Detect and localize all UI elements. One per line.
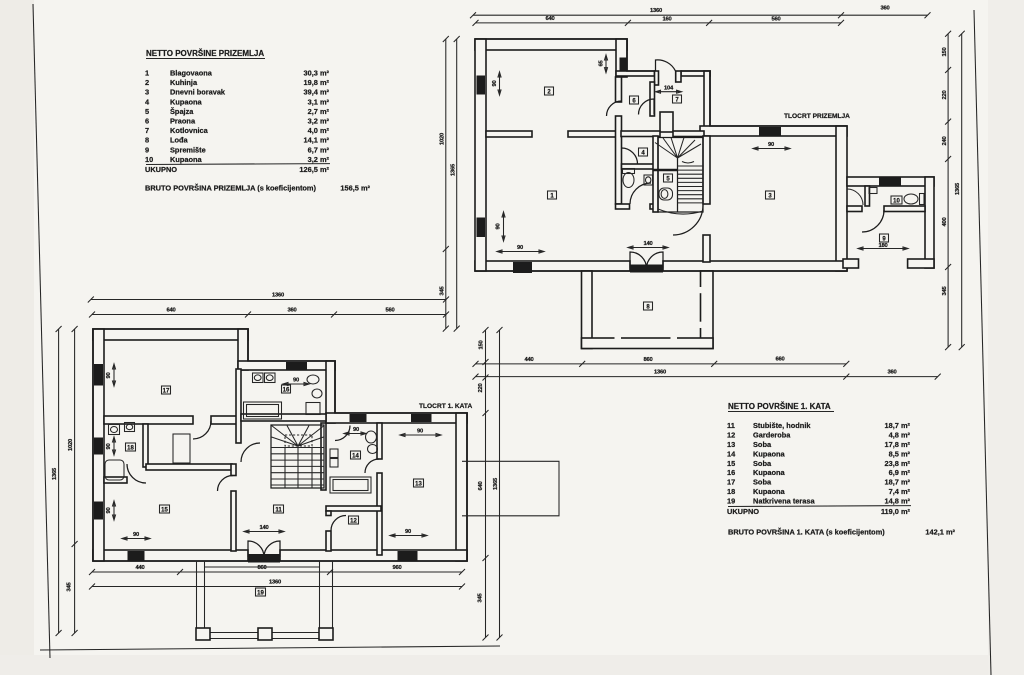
kat bath16 sink 1 <box>253 373 264 383</box>
svg-text:440: 440 <box>524 357 533 363</box>
svg-text:BRUTO POVRŠINA PRIZEMLJA (s ko: BRUTO POVRŠINA PRIZEMLJA (s koeficijento… <box>145 184 317 193</box>
prizemlje room label 2 <box>545 87 554 96</box>
svg-text:1360: 1360 <box>272 293 284 299</box>
svg-text:19,8 m²: 19,8 m² <box>304 78 330 87</box>
svg-text:90: 90 <box>405 529 411 535</box>
prizemlje stairs flight divider <box>677 158 679 212</box>
prizemlje annex toilet <box>904 194 918 204</box>
prizemlje interior wall: dining-hall lower <box>616 116 622 204</box>
svg-text:1365: 1365 <box>451 163 457 176</box>
prizemlje annex wall: bottom right stub <box>908 259 934 268</box>
dim line right of kat total 1365 <box>499 330 501 638</box>
prizemlje loggia wall: right <box>701 271 714 349</box>
prizemlje room label 8 <box>644 302 653 311</box>
kat bath16 sink 2 <box>265 373 276 383</box>
svg-text:UKUPNO: UKUPNO <box>145 165 177 174</box>
legend total rule <box>146 163 330 166</box>
prizemlje dim 180 annex door <box>858 247 908 250</box>
svg-text:13: 13 <box>727 440 735 449</box>
svg-text:5: 5 <box>145 107 149 116</box>
prizemlje exterior wall: top of kitchen block <box>475 39 627 50</box>
kat stairs mid rail <box>285 446 312 488</box>
prizemlje stairs outline <box>658 138 703 213</box>
kat exterior wall: bottom right piece <box>280 550 467 561</box>
kat bath18 sink 2 <box>125 423 135 432</box>
prizemlje dim 140 french door <box>628 246 668 249</box>
svg-text:Natkrivena terasa: Natkrivena terasa <box>753 496 816 505</box>
svg-text:90: 90 <box>293 378 299 384</box>
prizemlje window: kitchen east <box>620 58 627 72</box>
prizemlje french door arcs <box>630 252 663 269</box>
svg-text:3: 3 <box>145 88 149 97</box>
kat door arc: hall to room12 <box>331 516 346 531</box>
svg-text:Kupaona: Kupaona <box>753 487 786 496</box>
svg-text:90: 90 <box>417 429 423 435</box>
prizemlje loggia parapet notch 1 <box>615 337 622 342</box>
kat french door sill <box>248 554 280 563</box>
svg-text:119,0 m²: 119,0 m² <box>881 507 911 516</box>
svg-text:19: 19 <box>727 496 735 505</box>
svg-text:18,7 m²: 18,7 m² <box>885 421 911 430</box>
svg-text:39,4 m²: 39,4 m² <box>304 88 330 97</box>
prizemlje window: room3 north <box>759 127 781 136</box>
kat room label 18 <box>126 443 136 452</box>
kat dim 90 bath18 window <box>113 437 116 455</box>
svg-text:14: 14 <box>352 454 359 460</box>
svg-text:Kuhinja: Kuhinja <box>170 78 198 87</box>
prizemlje stairs walk line <box>682 162 694 164</box>
legend 2 heading underline <box>728 411 834 413</box>
svg-text:18,7 m²: 18,7 m² <box>885 478 911 487</box>
dim line left of prizemlje total 1365 <box>456 39 458 329</box>
svg-text:860: 860 <box>257 565 266 571</box>
svg-text:660: 660 <box>775 356 784 362</box>
svg-text:Praona: Praona <box>170 117 196 126</box>
svg-text:4,0 m²: 4,0 m² <box>308 126 330 135</box>
svg-text:160: 160 <box>662 17 671 23</box>
svg-text:13: 13 <box>415 482 422 488</box>
svg-text:UKUPNO: UKUPNO <box>727 507 759 516</box>
kat room label 17 <box>162 386 171 395</box>
prizemlje annex wall: bath divider horizontal left <box>847 206 862 212</box>
svg-text:Spremište: Spremište <box>170 145 206 154</box>
svg-text:65: 65 <box>599 60 605 67</box>
svg-text:Dnevni boravak: Dnevni boravak <box>170 88 226 97</box>
svg-text:1365: 1365 <box>955 182 961 195</box>
svg-text:3,2 m²: 3,2 m² <box>308 117 330 126</box>
prizemlje interior wall: hall bottom piece under 7 <box>673 131 704 137</box>
prizemlje window: annex north <box>879 178 901 186</box>
svg-text:Soba: Soba <box>753 459 772 468</box>
kat terrace19 post right <box>319 628 333 640</box>
prizemlje loggia wall: bottom <box>582 338 714 349</box>
kat bath14 toilet <box>366 431 377 443</box>
kat interior wall: room12 left lower <box>326 531 331 551</box>
prizemlje interior wall: kitchen-dining left piece <box>486 131 532 137</box>
kat interior wall: hall-room15 divider lower <box>231 491 236 551</box>
svg-text:BRUTO POVRŠINA 1. KATA (s koef: BRUTO POVRŠINA 1. KATA (s koeficijentom) <box>728 528 885 537</box>
kat interior wall: bath18 right <box>143 424 148 467</box>
prizemlje wc sink <box>644 175 653 185</box>
kat bath14 sink 2 <box>330 459 338 468</box>
kat interior wall: bath16 left <box>236 369 241 443</box>
prizemlje annex wall: bath divider horizontal right <box>884 206 925 212</box>
prizemlje dim 90 left window upper <box>498 72 501 95</box>
kat interior wall: room17 bottom left <box>104 416 193 424</box>
kat interior wall: room13-bath14 divider upper <box>377 423 382 459</box>
kat bath16 cabinet <box>306 403 320 415</box>
kat exterior wall: step right of 17 <box>238 329 248 370</box>
svg-text:8: 8 <box>145 136 149 145</box>
kat bath16 toilet <box>307 375 319 384</box>
prizemlje exterior wall: bottom right piece <box>663 261 847 271</box>
svg-text:640: 640 <box>166 308 175 314</box>
kat outer contour overdraw <box>93 329 467 561</box>
prizemlje stairs treads <box>678 166 704 203</box>
svg-text:90: 90 <box>496 223 502 229</box>
prizemlje annex wall: right <box>925 177 934 268</box>
kat exterior wall: room13 top <box>326 413 467 423</box>
svg-text:23,8 m²: 23,8 m² <box>885 459 911 468</box>
prizemlje wc toilet <box>623 173 634 188</box>
prizemlje understair toilet <box>659 188 673 200</box>
kat interior wall: room15 top <box>146 464 232 470</box>
kat dim 90 room15 window <box>113 501 116 520</box>
svg-text:7: 7 <box>145 126 149 135</box>
svg-text:11: 11 <box>275 508 282 514</box>
svg-text:17,8 m²: 17,8 m² <box>885 440 911 449</box>
svg-text:19: 19 <box>257 591 264 597</box>
svg-text:90: 90 <box>353 427 359 433</box>
kat bath16 tub <box>244 402 282 419</box>
prizemlje room label 6 <box>630 96 639 105</box>
svg-text:360: 360 <box>887 370 896 376</box>
prizemlje interior wall: wc top <box>622 164 654 169</box>
kat stairs outline <box>271 425 324 488</box>
kat terrace19 post left <box>196 628 210 640</box>
dim line top E1 total 1360/360 <box>473 14 928 16</box>
prizemlje room label 5 <box>664 174 673 183</box>
prizemlje room label 7 <box>673 95 682 104</box>
kat bath18 shower <box>105 460 124 480</box>
kat door arc: room13 to bath14 <box>365 459 379 473</box>
prizemlje door arc: room 6 <box>639 99 655 115</box>
prizemlje entry door arc <box>656 60 676 71</box>
svg-text:Kupaona: Kupaona <box>170 97 203 106</box>
prizemlje door arc: hall to room 3 <box>673 205 703 235</box>
kat bath14 tub <box>330 477 371 493</box>
prizemlje french door sill <box>630 265 663 273</box>
dim line left of kat 1020/345 <box>74 329 76 633</box>
prizemlje exterior wall: bottom left piece <box>475 261 630 271</box>
kat stairs winder fan <box>272 426 324 447</box>
kat dim 90 room15 south window <box>122 537 150 540</box>
svg-text:17: 17 <box>727 478 735 487</box>
svg-text:Kupaona: Kupaona <box>170 155 203 164</box>
svg-text:1360: 1360 <box>654 370 666 376</box>
prizemlje annex corner sink <box>847 189 863 205</box>
svg-text:560: 560 <box>771 17 780 23</box>
kat exterior wall: top of room 17 block <box>93 329 248 340</box>
svg-text:140: 140 <box>643 241 652 247</box>
prizemlje dim 65 kitchen window <box>605 55 608 73</box>
kat window: room15 south <box>128 551 145 562</box>
svg-text:90: 90 <box>517 245 523 251</box>
svg-text:1365: 1365 <box>493 477 499 490</box>
prizemlje interior wall: room 6 bottom <box>621 131 660 137</box>
prizemlje exterior wall: main right <box>836 126 847 271</box>
kat interior wall: stairs right <box>321 423 326 490</box>
dim line left of prizemlje 1020/345 <box>445 39 447 329</box>
svg-text:30,3 m²: 30,3 m² <box>304 69 330 78</box>
prizemlje interior wall: chimney bump <box>660 112 673 132</box>
prizemlje room label 1 <box>548 191 557 200</box>
kat exterior wall: room16 top <box>238 361 335 370</box>
prizemlje annex wall: top <box>847 177 934 186</box>
svg-text:14,8 m²: 14,8 m² <box>885 496 911 505</box>
prizemlje loggia parapet notch 4 <box>699 322 704 328</box>
svg-text:1360: 1360 <box>650 8 662 14</box>
svg-text:Kupaona: Kupaona <box>753 449 786 458</box>
svg-text:345: 345 <box>942 285 948 295</box>
svg-text:90: 90 <box>133 532 139 538</box>
svg-text:1360: 1360 <box>269 580 281 586</box>
prizemlje interior wall: stair left <box>653 136 658 212</box>
svg-text:Garderoba: Garderoba <box>753 431 791 440</box>
svg-text:180: 180 <box>878 243 887 249</box>
svg-text:142,1 m²: 142,1 m² <box>925 528 955 537</box>
kat terrace19 right wall <box>320 561 333 640</box>
svg-text:14,1 m²: 14,1 m² <box>304 136 330 145</box>
svg-text:17: 17 <box>163 389 170 395</box>
svg-text:4,8 m²: 4,8 m² <box>889 431 911 440</box>
kat interior wall: room13-bath14 divider lower <box>377 473 382 555</box>
prizemlje exterior wall: left <box>475 39 486 271</box>
svg-text:640: 640 <box>545 16 554 22</box>
prizemlje interior wall: room3 left lower <box>703 235 710 262</box>
svg-text:Lođa: Lođa <box>170 136 189 145</box>
kat room label 12 <box>349 516 359 525</box>
svg-text:360: 360 <box>880 6 889 12</box>
prizemlje entry jamb left <box>655 71 659 85</box>
kat window: room13 north west <box>350 414 367 422</box>
svg-text:960: 960 <box>392 565 401 571</box>
kat window: bath18 west <box>94 438 103 455</box>
svg-text:2,7 m²: 2,7 m² <box>308 107 330 116</box>
kat window: room15 west <box>94 502 103 520</box>
prizemlje room label 9 <box>880 234 889 243</box>
kat room label 16 <box>282 385 291 394</box>
svg-text:NETTO POVRŠINE 1. KATA: NETTO POVRŠINE 1. KATA <box>728 402 831 411</box>
kat stairs landing dash <box>285 435 312 446</box>
kat bath14 bidet <box>368 445 378 454</box>
svg-text:6,9 m²: 6,9 m² <box>889 468 911 477</box>
prizemlje room label 10 <box>891 196 902 205</box>
kat exterior wall: bottom left piece <box>93 550 248 561</box>
svg-text:400: 400 <box>942 217 948 226</box>
dim line right of prizemlje 150/220/240/400/345 <box>947 34 949 347</box>
kat window: room17 west <box>94 364 103 386</box>
svg-text:560: 560 <box>385 308 394 314</box>
prizemlje exterior wall: room 3 top <box>700 126 847 136</box>
sheet left border <box>33 4 50 658</box>
svg-text:360: 360 <box>287 308 296 314</box>
prizemlje annex door arc <box>862 210 884 232</box>
prizemlje dim 90 dining window <box>497 250 544 253</box>
kat terrace19 left wall <box>197 561 205 640</box>
dim line bottom of prizemlje E3 440/860/660 <box>476 363 847 365</box>
svg-text:440: 440 <box>135 565 144 571</box>
prizemlje door arc: wc <box>630 183 651 204</box>
svg-text:Kotlovnica: Kotlovnica <box>170 126 209 135</box>
svg-text:104: 104 <box>664 85 674 91</box>
kat wardrobe <box>173 434 190 463</box>
svg-text:6,7 m²: 6,7 m² <box>308 145 330 154</box>
svg-text:345: 345 <box>478 592 484 602</box>
prizemlje interior wall: room3 left upper <box>703 136 710 204</box>
prizemlje interior wall: wc bottom jamb <box>650 204 654 209</box>
prizemlje exterior wall: kitchen right <box>616 39 627 77</box>
dim line top of kat D1 total 1360 <box>91 299 446 301</box>
kat interior wall: room17 bottom jamb <box>211 416 238 424</box>
svg-text:15: 15 <box>727 459 735 468</box>
prizemlje exterior wall: vestibule top right piece <box>681 71 710 76</box>
svg-text:240: 240 <box>942 136 948 145</box>
svg-text:TLOCRT PRIZEMLJA: TLOCRT PRIZEMLJA <box>784 113 850 120</box>
svg-text:150: 150 <box>479 340 485 349</box>
prizemlje exterior wall: right of rooms 6-7 <box>704 71 710 136</box>
svg-text:860: 860 <box>643 357 652 363</box>
prizemlje stairs landing wall <box>653 169 678 172</box>
svg-text:345: 345 <box>67 581 73 591</box>
kat bath14 sink 1 <box>330 449 338 458</box>
svg-text:Soba: Soba <box>753 478 772 487</box>
kat bath16 bidet <box>312 389 322 398</box>
prizemlje room label 4 <box>639 148 648 157</box>
prizemlje interior wall: kitchen-dining right piece <box>568 131 616 137</box>
prizemlje outer contour overdraw <box>475 39 847 271</box>
svg-text:90: 90 <box>768 142 774 148</box>
svg-text:11: 11 <box>727 421 735 430</box>
kat bath18 sink 1 <box>109 425 120 435</box>
prizemlje annex small fixture <box>869 188 877 194</box>
kat dim 90 room17 window <box>113 364 116 386</box>
prizemlje window: left lower <box>477 218 486 238</box>
kat interior wall: room12 top <box>326 506 381 511</box>
prizemlje dim 104 at entry <box>656 90 682 93</box>
kat room label 13 <box>414 479 424 488</box>
kat stairs treads <box>271 448 324 486</box>
prizemlje interior wall: rooms 6-7 divider <box>650 82 655 116</box>
kat interior wall: room12 left upper <box>326 511 331 516</box>
prizemlje interior wall: dining-hall upper <box>616 77 622 102</box>
svg-text:10: 10 <box>893 199 900 205</box>
kat terrace19 inner line <box>205 566 320 568</box>
svg-text:1: 1 <box>145 69 149 78</box>
prizemlje window: dining south <box>513 262 532 273</box>
svg-text:15: 15 <box>161 508 168 514</box>
kat dim 90 bath14 <box>344 432 366 435</box>
svg-text:220: 220 <box>478 383 484 392</box>
svg-text:140: 140 <box>259 525 268 531</box>
kat window: room13 north east <box>411 414 432 422</box>
svg-text:8,5 m²: 8,5 m² <box>889 449 911 458</box>
kat window: bath16 north <box>286 362 307 370</box>
svg-text:3,2 m²: 3,2 m² <box>308 155 330 164</box>
svg-text:NETTO POVRŠINE PRIZEMLJA: NETTO POVRŠINE PRIZEMLJA <box>146 49 264 58</box>
sheet bottom border <box>40 646 500 650</box>
prizemlje door arc: dining to hall <box>607 101 622 116</box>
prizemlje dim 90 room3 window <box>753 147 790 150</box>
svg-text:Kupaona: Kupaona <box>753 468 786 477</box>
kat door arc: room15 to bath18 <box>127 464 146 483</box>
kat dim 90 room13 north window <box>400 434 441 437</box>
kat room label 11 <box>274 505 284 514</box>
prizemlje door arc: lobby <box>622 148 638 164</box>
prizemlje annex wall: bath cell divider <box>865 186 870 206</box>
prizemlje entry jamb right <box>676 71 681 82</box>
prizemlje loggia wall: left <box>582 271 593 349</box>
svg-text:16: 16 <box>283 388 290 394</box>
kat interior wall: hall-room15 divider upper <box>231 464 236 476</box>
svg-text:9: 9 <box>145 145 149 154</box>
svg-text:16: 16 <box>727 468 735 477</box>
svg-text:345: 345 <box>440 285 446 295</box>
svg-text:Blagovaona: Blagovaona <box>170 69 213 78</box>
prizemlje dim 90 left window lower <box>502 212 505 241</box>
kat dim 140 french door <box>244 530 284 533</box>
kat room label 14 <box>351 451 361 460</box>
svg-text:90: 90 <box>106 372 112 378</box>
svg-text:10: 10 <box>145 155 153 164</box>
prizemlje stairs winder fan <box>655 138 701 159</box>
kat window: room13 south <box>398 551 418 562</box>
prizemlje exterior wall: vestibule top left piece <box>616 71 655 76</box>
svg-text:126,5 m²: 126,5 m² <box>299 165 329 174</box>
dim line top of kat D2 640/360/560 <box>92 314 446 316</box>
svg-text:Stubište, hodnik: Stubište, hodnik <box>753 421 811 430</box>
svg-text:1020: 1020 <box>440 133 446 145</box>
svg-text:3,1 m²: 3,1 m² <box>308 97 330 106</box>
svg-text:1365: 1365 <box>52 467 58 480</box>
prizemlje annex wall: bottom left stub <box>843 259 859 268</box>
svg-text:2: 2 <box>145 78 149 87</box>
svg-text:90: 90 <box>106 443 112 449</box>
svg-text:220: 220 <box>942 90 948 99</box>
svg-text:640: 640 <box>478 481 484 490</box>
kat dim 90 room13 south window <box>390 534 427 537</box>
dim line left of kat total 1365 <box>58 329 60 633</box>
sheet right border <box>974 10 991 675</box>
kat interior wall: bath16 bottom <box>241 414 326 421</box>
kat interior wall: bath18 bottom left <box>104 477 127 483</box>
prizemlje stairs bottom curve <box>658 209 703 214</box>
svg-text:12: 12 <box>350 519 357 525</box>
svg-text:14: 14 <box>727 449 736 458</box>
kat roof outline right <box>462 461 559 516</box>
kat door arc: hall to bath16 <box>241 443 260 462</box>
svg-text:12: 12 <box>727 431 735 440</box>
svg-text:18: 18 <box>727 487 735 496</box>
kat terrace19 post mid <box>258 628 272 640</box>
prizemlje room label 3 <box>766 191 775 200</box>
dim line bottom of kat total 1360 <box>92 586 462 588</box>
legend heading underline <box>146 58 265 60</box>
kat exterior wall: right <box>456 413 467 561</box>
svg-text:18: 18 <box>127 446 134 452</box>
dim line top E2 640/160/560 <box>476 22 842 24</box>
svg-text:TLOCRT 1. KATA: TLOCRT 1. KATA <box>419 403 472 410</box>
